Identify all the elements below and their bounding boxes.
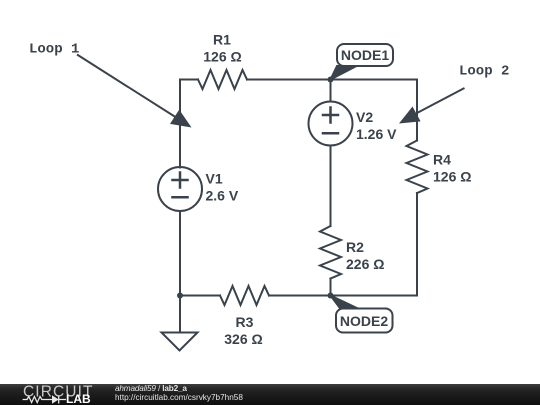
svg-text:V2: V2 <box>356 109 373 125</box>
wire <box>330 80 332 102</box>
resistor R2 <box>320 226 341 279</box>
node C junction dot <box>177 293 183 299</box>
Loop 2 annotation arrow <box>417 88 465 113</box>
svg-text:Loop 1: Loop 1 <box>29 42 79 58</box>
wire <box>269 295 331 297</box>
resistor R1 <box>198 70 247 89</box>
node NODE1 callout tail <box>331 66 357 80</box>
node NODE2 callout tail <box>331 296 361 310</box>
voltage source V1 <box>158 167 202 211</box>
svg-text:326 Ω: 326 Ω <box>224 331 262 347</box>
svg-text:1.26 V: 1.26 V <box>356 126 397 142</box>
node B junction dot <box>328 293 334 299</box>
svg-text:126 Ω: 126 Ω <box>433 169 471 185</box>
svg-text:LAB: LAB <box>66 392 91 405</box>
svg-text:R4: R4 <box>433 152 451 168</box>
resistor R4 <box>407 141 428 194</box>
wire <box>331 80 418 141</box>
wire <box>330 279 332 296</box>
svg-text:2.6 V: 2.6 V <box>206 188 239 204</box>
node NODE2 callout box <box>336 309 393 333</box>
svg-text:226 Ω: 226 Ω <box>346 256 384 272</box>
Loop 1 annotation arrow <box>77 55 177 119</box>
svg-text:V1: V1 <box>206 171 223 187</box>
wire <box>180 80 198 168</box>
svg-text:126 Ω: 126 Ω <box>203 49 241 65</box>
resistor R3 <box>220 286 269 305</box>
svg-text:NODE2: NODE2 <box>340 313 388 329</box>
wire <box>247 79 331 81</box>
node NODE1 callout box <box>337 44 393 66</box>
svg-text:http://circuitlab.com/csrvky7b: http://circuitlab.com/csrvky7b7hn58 <box>115 393 243 402</box>
wire <box>331 193 418 296</box>
svg-text:R2: R2 <box>346 239 364 255</box>
voltage source V2 <box>309 102 353 146</box>
wire <box>330 146 332 227</box>
svg-text:R1: R1 <box>213 32 231 48</box>
svg-text:Loop 2: Loop 2 <box>459 64 509 80</box>
svg-text:NODE1: NODE1 <box>341 47 389 63</box>
CircuitLab logo resistor+diode glyph <box>23 396 66 404</box>
wire <box>180 295 220 297</box>
node A junction dot <box>328 77 334 83</box>
svg-text:ahmadali59 / lab2_a: ahmadali59 / lab2_a <box>115 384 187 393</box>
wire <box>179 211 181 296</box>
svg-text:R3: R3 <box>236 314 254 330</box>
ground <box>162 296 198 351</box>
